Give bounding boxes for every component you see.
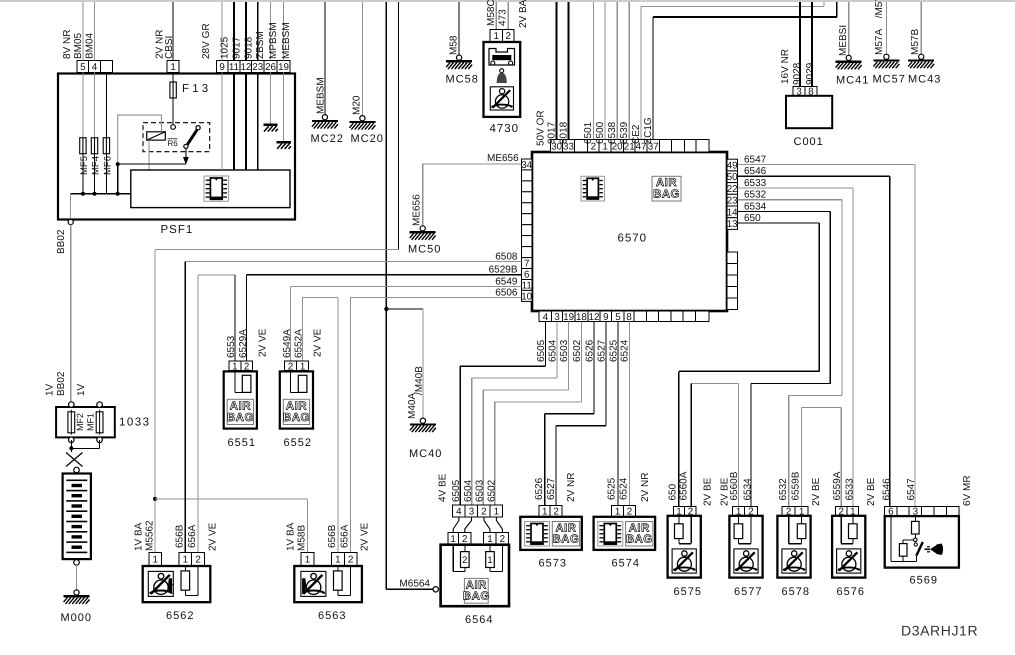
svg-text:6575: 6575: [674, 586, 702, 598]
svg-text:6502: 6502: [487, 479, 498, 502]
6570 left pin column: [521, 159, 532, 302]
svg-text:6525: 6525: [607, 477, 618, 500]
wire 6563 squib top: [337, 565, 339, 571]
wire M58B vertical: [306, 499, 308, 552]
belt icon 6575: [672, 549, 696, 573]
resistor in 6569: [912, 521, 920, 534]
junction under 1033: [69, 446, 73, 450]
wire 6564 loop2 down: [464, 568, 466, 572]
svg-text:2V BA: 2V BA: [518, 0, 529, 28]
seat-belt switch 6577: [729, 516, 762, 578]
PSF1 connector pin 1: [167, 60, 179, 73]
wire to MF6: [105, 73, 107, 139]
svg-text:M57B: M57B: [910, 29, 921, 55]
svg-text:1: 1: [152, 554, 157, 565]
svg-text:656A: 656A: [340, 524, 351, 548]
wire 6532 vertical upper: [841, 200, 843, 396]
wire 6502 vertical to connector: [494, 402, 496, 505]
airbag module 6564: [441, 545, 509, 607]
AIR BAG text inside 6570: [652, 176, 681, 201]
wire BB02: [70, 225, 72, 405]
wire 6564 loop2 across: [453, 571, 465, 573]
wire 6562 loop up: [197, 565, 199, 595]
wire 473: [507, 2, 509, 29]
wire 6547 vertical: [914, 165, 916, 507]
svg-text:6539: 6539: [619, 121, 630, 144]
svg-text:CBSI: CBSI: [164, 36, 175, 59]
AIR BAG text 6573: [552, 522, 579, 547]
wire 6526 vertical from pin: [593, 322, 595, 414]
svg-text:ZC1G: ZC1G: [643, 117, 654, 144]
seat-belt icon 6562: [148, 571, 173, 596]
svg-text:9018: 9018: [243, 36, 254, 59]
splice X symbol: [66, 453, 83, 467]
svg-text:12: 12: [589, 312, 600, 323]
wire M6564 horizontal: [386, 588, 433, 590]
svg-text:6534: 6534: [743, 478, 754, 501]
svg-text:BAG: BAG: [283, 412, 310, 424]
wire 6576 squib top: [852, 516, 854, 524]
wire 6576 loop up: [840, 516, 842, 544]
svg-text:6577: 6577: [734, 586, 762, 598]
wire 9018 to pin33: [568, 2, 570, 140]
wire trunk to M5562: [398, 2, 400, 249]
wire 6552A vertical: [302, 297, 304, 360]
svg-text:M000: M000: [61, 612, 93, 624]
4730 contact right: [509, 61, 513, 65]
wire BM04: [94, 2, 96, 60]
connector C001: [786, 96, 832, 128]
svg-text:8V NR: 8V NR: [62, 30, 73, 59]
6564 link wires: [453, 517, 459, 533]
wire MEBSI: [848, 2, 850, 55]
wire 6505 horizontal: [460, 365, 545, 367]
wire 6534 jog: [751, 382, 830, 384]
svg-text:MC43: MC43: [908, 74, 941, 86]
svg-text:23: 23: [727, 196, 738, 207]
svg-text:6508: 6508: [495, 252, 518, 263]
wire 6577 loop up: [750, 516, 752, 544]
svg-text:19: 19: [278, 62, 289, 73]
wire M58C: [495, 2, 497, 29]
wire 9018 (to PSF1): [245, 2, 247, 60]
connector 6551 pins 1,2: [229, 361, 253, 372]
svg-text:M5562: M5562: [145, 520, 156, 551]
wire 656B (6563): [337, 297, 339, 552]
svg-text:BB02: BB02: [56, 229, 67, 254]
wire 6564 loop1 up: [501, 545, 503, 572]
svg-text:1: 1: [183, 554, 188, 565]
svg-text:22: 22: [727, 184, 738, 195]
PSF1 internal module box: [131, 170, 290, 208]
svg-text:6526: 6526: [585, 339, 596, 362]
svg-text:6V MR: 6V MR: [962, 475, 973, 506]
svg-text:PSF1: PSF1: [161, 224, 194, 236]
junction: [116, 192, 120, 196]
svg-text:6559A: 6559A: [832, 471, 843, 500]
wire M58: [458, 2, 460, 55]
wire 6562 loop across: [185, 595, 198, 597]
svg-text:4: 4: [92, 62, 98, 73]
svg-text:6564: 6564: [465, 614, 493, 626]
wire 6560B vertical: [737, 383, 739, 506]
junction: [81, 192, 85, 196]
junction M5562/M58B: [153, 497, 157, 501]
svg-text:473: 473: [498, 9, 509, 26]
ground MC20: [349, 116, 383, 145]
wire 6564 loop1 down: [489, 568, 491, 572]
wire 6552A-656B loop: [303, 296, 338, 298]
svg-text:2V BE: 2V BE: [703, 477, 714, 506]
wire resistor2 top: [902, 540, 904, 544]
wire 6560A vertical: [690, 383, 692, 506]
wire 6569 bottom bus: [891, 561, 916, 563]
terminal BB02 at PSF1: [68, 219, 73, 224]
svg-text:M58B: M58B: [297, 525, 308, 551]
key symbol in 6569: [925, 544, 944, 556]
svg-text:13: 13: [727, 219, 738, 230]
svg-text:BAG: BAG: [553, 534, 580, 546]
wire 1033 left down: [70, 440, 72, 452]
svg-text:3: 3: [554, 312, 560, 323]
svg-text:ME656: ME656: [487, 153, 519, 164]
svg-text:650: 650: [667, 483, 678, 500]
wire pin26 to internal ground: [270, 73, 272, 124]
wire 6575 loop across: [679, 543, 691, 545]
svg-text:6570: 6570: [618, 233, 648, 245]
wire MF5 down: [82, 153, 84, 194]
svg-text:4: 4: [543, 312, 549, 323]
svg-text:2V VE: 2V VE: [360, 522, 371, 551]
wire 6577 loop across: [738, 543, 751, 545]
wire 9029: [811, 2, 813, 86]
relay R6 coil: [147, 132, 166, 140]
svg-text:6525: 6525: [609, 339, 620, 362]
wire 6576 loop across: [841, 543, 853, 545]
svg-text:50: 50: [727, 172, 738, 183]
wire 6533 horizontal: [738, 187, 853, 189]
wire 6503 vertical from pin: [568, 322, 570, 391]
battery + terminal: [74, 467, 80, 473]
key switch 6569: [885, 516, 959, 568]
fuse MF6: [103, 138, 109, 154]
wire 6551 loop: [235, 391, 243, 393]
wire pin5 to MF5: [82, 73, 84, 139]
wire 6508 horizontal: [185, 261, 521, 263]
svg-text:/M40B: /M40B: [414, 366, 425, 395]
svg-text:16V NR: 16V NR: [780, 49, 791, 84]
svg-text:9028: 9028: [792, 62, 803, 85]
fuse MF4: [91, 138, 97, 154]
connector 6564 left pins 1,2: [448, 533, 471, 546]
seat-belt switch 6576: [832, 516, 865, 578]
connector 6563 pins 1,2: [332, 552, 358, 565]
wire 656A (6563): [350, 297, 352, 552]
svg-text:6562: 6562: [166, 610, 194, 622]
svg-text:6576: 6576: [837, 586, 865, 598]
svg-text:9018: 9018: [559, 121, 570, 144]
svg-text:2V NR: 2V NR: [566, 473, 577, 502]
fuse/relay box PSF1: [58, 74, 295, 220]
svg-text:MC50: MC50: [408, 244, 441, 256]
terminal 1033 bottom-right: [97, 437, 103, 443]
wire battery to ground: [76, 565, 78, 590]
svg-text:M20: M20: [352, 95, 363, 115]
wire 6569 pin3 internal: [914, 516, 916, 521]
seat-belt icon 4730: [490, 87, 513, 110]
wire 650 horizontal: [738, 222, 820, 224]
wire 9017 (to PSF1): [233, 2, 235, 60]
wire 6575 squib top: [678, 516, 680, 524]
switch contact 6569: [914, 538, 918, 542]
seat-belt switch 6578: [777, 516, 810, 578]
wire to switch contact: [914, 534, 916, 538]
wire 6547 horizontal: [738, 164, 915, 166]
wire 6527 vertical from pin: [605, 322, 607, 426]
wire M58B link: [155, 498, 307, 500]
wire 6575 loop down: [678, 539, 680, 544]
svg-text:6533: 6533: [744, 178, 767, 189]
wire 6529A vertical: [246, 275, 248, 361]
svg-text:1033: 1033: [119, 417, 151, 429]
4730 contact left: [491, 61, 495, 65]
wire 6577 squib top: [737, 516, 739, 524]
wire ME656 horizontal: [423, 163, 522, 165]
svg-text:BB02: BB02: [56, 371, 67, 396]
wire 6576 loop down: [852, 539, 854, 544]
svg-text:ZBSM: ZBSM: [255, 31, 266, 59]
svg-text:MF2: MF2: [75, 413, 85, 431]
wire M57A: [885, 2, 887, 54]
wire branch to resistor2: [903, 539, 913, 541]
connector 6564 pins 4,3,2,1: [453, 505, 503, 517]
wire 6501: [592, 2, 594, 140]
wire 6504 horizontal: [472, 377, 557, 379]
wire 6578 squib top: [801, 516, 803, 524]
wire 6527 horizontal: [556, 425, 606, 427]
wire MEBSM to PSF1: [283, 2, 285, 60]
wire CE2 horizontal: [641, 6, 824, 8]
connector 6573 pins 1,2: [539, 505, 562, 517]
airbag module 6573: [520, 517, 582, 550]
svg-text:2V VE: 2V VE: [258, 328, 269, 357]
connector 6569 pin row: [885, 506, 959, 517]
switch blade 6569: [916, 542, 923, 556]
fuse MF5: [80, 138, 86, 154]
svg-text:6553: 6553: [226, 335, 237, 358]
6570 top pin row: [551, 140, 709, 153]
wire MPBSM: [270, 2, 272, 60]
wire 6553 vertical: [234, 275, 236, 361]
wire 9028: [799, 2, 801, 86]
airbag module 6551: [224, 371, 257, 428]
svg-text:6505: 6505: [451, 479, 462, 502]
wire 650 vertical lower: [678, 371, 680, 506]
svg-text:6524: 6524: [618, 477, 629, 500]
wire 6559A vertical: [840, 408, 842, 507]
wire pin19 to internal ground: [283, 73, 285, 141]
svg-text:MF4: MF4: [91, 156, 102, 175]
svg-text:AIR: AIR: [286, 400, 308, 412]
svg-text:6546: 6546: [744, 166, 767, 177]
svg-text:MF1: MF1: [86, 413, 96, 431]
IC symbol in 6574: [598, 522, 623, 547]
svg-text:BAG: BAG: [227, 412, 254, 424]
wire M5562 vertical: [154, 249, 156, 552]
ground MC43: [908, 54, 941, 85]
svg-text:/M57: /M57: [874, 0, 885, 18]
svg-text:C001: C001: [794, 136, 824, 148]
fuse box 1033: [56, 407, 115, 437]
svg-text:9: 9: [219, 62, 224, 73]
wire 6503 horizontal: [483, 389, 568, 391]
seat-belt icon 6563: [301, 571, 326, 596]
pretensioner 4730: [484, 42, 521, 117]
svg-text:MF5: MF5: [79, 156, 90, 175]
svg-text:2: 2: [195, 554, 200, 565]
wire 6502 vertical from pin: [580, 322, 582, 402]
svg-text:9029: 9029: [805, 62, 816, 85]
airbag ECU 6570: [532, 152, 727, 311]
wire M5562 horizontal: [155, 248, 399, 250]
svg-text:AIR: AIR: [629, 522, 650, 534]
terminal M6564: [433, 587, 438, 592]
PSF1 connector pins 5,4: [77, 60, 113, 73]
wire 6525: [617, 322, 619, 506]
belt icon 6578: [782, 549, 806, 573]
wire relay bus horizontal: [118, 163, 186, 165]
svg-text:2V BE: 2V BE: [866, 477, 877, 506]
fuse MF2: [68, 410, 75, 435]
wire 6578 loop across: [789, 543, 802, 545]
svg-text:6502: 6502: [572, 339, 583, 362]
svg-text:6560A: 6560A: [679, 471, 690, 500]
svg-text:7: 7: [524, 258, 529, 269]
4730 inertia reel bracket: [489, 49, 515, 66]
wire to BB02 terminal: [70, 194, 72, 220]
wire 6559B vertical: [801, 408, 803, 507]
ground MC41: [836, 55, 870, 86]
svg-text:MF6: MF6: [103, 156, 114, 175]
svg-text:MPBSM: MPBSM: [268, 22, 279, 59]
svg-text:1V BA: 1V BA: [134, 522, 145, 551]
wire MF4 down: [94, 153, 96, 194]
wire 9017 internal: [233, 73, 235, 171]
squib in 6552: [298, 375, 307, 392]
pretensioner 6562: [143, 566, 211, 602]
wire join under 1033: [71, 447, 99, 449]
connector 6564 right pins 1,2: [484, 533, 509, 546]
wire F13 to relay contact: [172, 98, 174, 124]
wire blade to bus: [185, 149, 187, 159]
wire 6560A-6560B loop: [691, 382, 738, 384]
wire BM05: [82, 2, 84, 60]
wire 6506 horizontal: [351, 296, 522, 298]
svg-text:M40A: M40A: [407, 393, 418, 419]
svg-text:12: 12: [240, 62, 251, 73]
svg-text:MC22: MC22: [311, 133, 344, 145]
wire 6526 horizontal: [545, 413, 594, 415]
svg-text:6503: 6503: [475, 479, 486, 502]
squib 1 in 6564: [486, 552, 495, 568]
wire 6532 vertical lower: [788, 395, 790, 506]
svg-text:6501: 6501: [583, 121, 594, 144]
svg-text:6504: 6504: [463, 479, 474, 502]
svg-text:9017: 9017: [232, 36, 243, 59]
svg-text:AIR: AIR: [555, 522, 576, 534]
connector 4730 pins 1,2: [490, 29, 514, 42]
wire 6564 loop1 across: [490, 571, 502, 573]
svg-text:6549: 6549: [495, 276, 518, 287]
svg-text:656A: 656A: [187, 524, 198, 548]
svg-text:BAG: BAG: [463, 591, 490, 603]
relay R6 dashed box: [143, 123, 210, 152]
wire resistor2 bottom: [902, 556, 904, 561]
wire M57B: [920, 2, 922, 54]
svg-text:34: 34: [521, 160, 532, 171]
svg-text:AIR: AIR: [466, 579, 487, 591]
wire 6578 loop up: [788, 516, 790, 544]
svg-text:MC57: MC57: [873, 74, 906, 86]
squib in 6563: [334, 571, 343, 590]
connector 6576 pins: [835, 506, 858, 517]
wire CE2 from top: [823, 2, 825, 7]
connector 6577 pins: [733, 506, 758, 517]
svg-text:2: 2: [462, 555, 467, 566]
wire 6505 vertical to connector: [459, 366, 461, 505]
svg-text:6527: 6527: [546, 477, 557, 500]
svg-text:11: 11: [229, 62, 239, 73]
wire ZC1G horizontal: [653, 16, 837, 18]
svg-text:5: 5: [80, 62, 86, 73]
svg-text:6560B: 6560B: [729, 471, 740, 500]
svg-text:6533: 6533: [845, 478, 856, 501]
svg-text:5: 5: [615, 312, 621, 323]
page top edge: [0, 0, 1015, 2]
svg-text:M58: M58: [449, 35, 460, 55]
svg-text:BAG: BAG: [626, 534, 653, 546]
wire 6549 horizontal: [291, 285, 522, 287]
svg-text:4V BE: 4V BE: [438, 473, 449, 502]
svg-text:6563: 6563: [318, 610, 346, 622]
junction M40A: [384, 307, 388, 311]
svg-text:MC40: MC40: [409, 448, 442, 460]
wire 656A-6553 loop: [198, 274, 235, 276]
svg-text:6578: 6578: [782, 586, 810, 598]
svg-text:MEBSM: MEBSM: [316, 77, 327, 114]
wire 6563 loop up: [350, 565, 352, 595]
svg-text:MC41: MC41: [836, 75, 869, 87]
wire 6578 loop down: [801, 539, 803, 544]
svg-text:6532: 6532: [778, 478, 789, 501]
wire blade to bus: [915, 556, 917, 562]
svg-text:1025: 1025: [220, 36, 231, 59]
ground MC57: [873, 54, 906, 85]
svg-text:6526: 6526: [534, 477, 545, 500]
svg-text:MC20: MC20: [351, 133, 384, 145]
wire 1025: [221, 2, 223, 60]
wire 6538: [616, 2, 618, 140]
svg-text:MC58: MC58: [446, 74, 479, 86]
6570 right pin column (bottom group): [727, 252, 738, 310]
wire CBSI: [172, 2, 174, 60]
svg-text:6559B: 6559B: [790, 471, 801, 500]
battery - terminal: [74, 560, 80, 566]
AIR BAG text 6552: [283, 399, 310, 424]
wire M20: [361, 2, 363, 116]
svg-text:M6564: M6564: [399, 579, 430, 590]
6570 right pin column (top group): [727, 159, 738, 230]
